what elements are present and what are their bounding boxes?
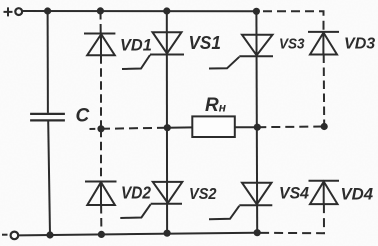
node: bottom VD2 junction xyxy=(98,231,105,238)
svg-text:VS1: VS1 xyxy=(189,33,221,53)
node: middle VS1-VS2 junction xyxy=(164,124,171,131)
thyristor VS1 xyxy=(122,32,184,69)
diode VD3 xyxy=(308,32,339,55)
thyristor VS3 xyxy=(209,35,273,69)
svg-text:VS2: VS2 xyxy=(189,186,217,203)
wire: top bus dashed to VD3 branch xyxy=(258,11,324,31)
wire: VD2 branch dashed from middle node xyxy=(100,129,102,182)
svg-text:VD2: VD2 xyxy=(121,182,151,202)
wire: middle line dashed VS3 node to VD3 node xyxy=(257,126,324,129)
node: bottom capacitor junction xyxy=(46,231,53,238)
svg-text:VD4: VD4 xyxy=(341,185,374,203)
diode VD2 xyxy=(85,182,117,206)
wire: VD2 to bottom bus dashed xyxy=(100,205,102,234)
plus terminal xyxy=(4,7,13,16)
node: top VD1 junction xyxy=(97,7,104,14)
svg-text:VD1: VD1 xyxy=(120,36,152,55)
resistor Rn xyxy=(192,116,235,137)
thyristor VS2 xyxy=(120,182,182,218)
diode VD1 xyxy=(84,34,115,56)
wire: VD4 to bottom corner dashed xyxy=(258,204,324,233)
wire: VS3 VS4 branch xyxy=(255,11,258,232)
node: middle VD3-VD4 junction xyxy=(321,123,328,130)
wire: resistor to VS3 node xyxy=(235,126,257,128)
wire: middle line dashed stub left of VD node xyxy=(90,128,96,130)
node: top VS1 junction xyxy=(163,7,170,14)
svg-text:VS3: VS3 xyxy=(279,36,305,53)
thyristor VS4 xyxy=(209,183,272,220)
svg-text:VS4: VS4 xyxy=(279,184,310,203)
node: top VS3 junction xyxy=(253,8,260,15)
wire: bottom bus solid xyxy=(19,233,258,236)
wire: middle line dashed VD1 node to VS1 node xyxy=(101,128,167,129)
wire: top bus solid xyxy=(22,10,257,12)
wire: VD1 branch dashed upper xyxy=(100,11,102,34)
node: middle VD1-VD2 junction xyxy=(97,125,104,132)
minus terminal xyxy=(2,234,8,236)
wire: capacitor branch upper xyxy=(47,11,49,113)
capacitor C xyxy=(30,114,65,121)
wire: VD3 to middle node dashed xyxy=(323,55,326,127)
wire: capacitor branch lower xyxy=(48,122,50,235)
node: bottom VS4 junction xyxy=(254,229,261,236)
wire: VS1 VS2 branch xyxy=(166,11,168,233)
wire: middle line solid to resistor xyxy=(167,126,192,128)
node: top capacitor junction xyxy=(44,7,51,14)
node: middle VS3-VS4 junction xyxy=(254,124,261,131)
diode VD4 xyxy=(309,181,340,204)
wire: VD1 to middle node dashed xyxy=(100,55,102,129)
node: bottom VS2 junction xyxy=(164,230,171,237)
svg-text:C: C xyxy=(76,106,90,127)
svg-text:VD3: VD3 xyxy=(344,35,375,52)
